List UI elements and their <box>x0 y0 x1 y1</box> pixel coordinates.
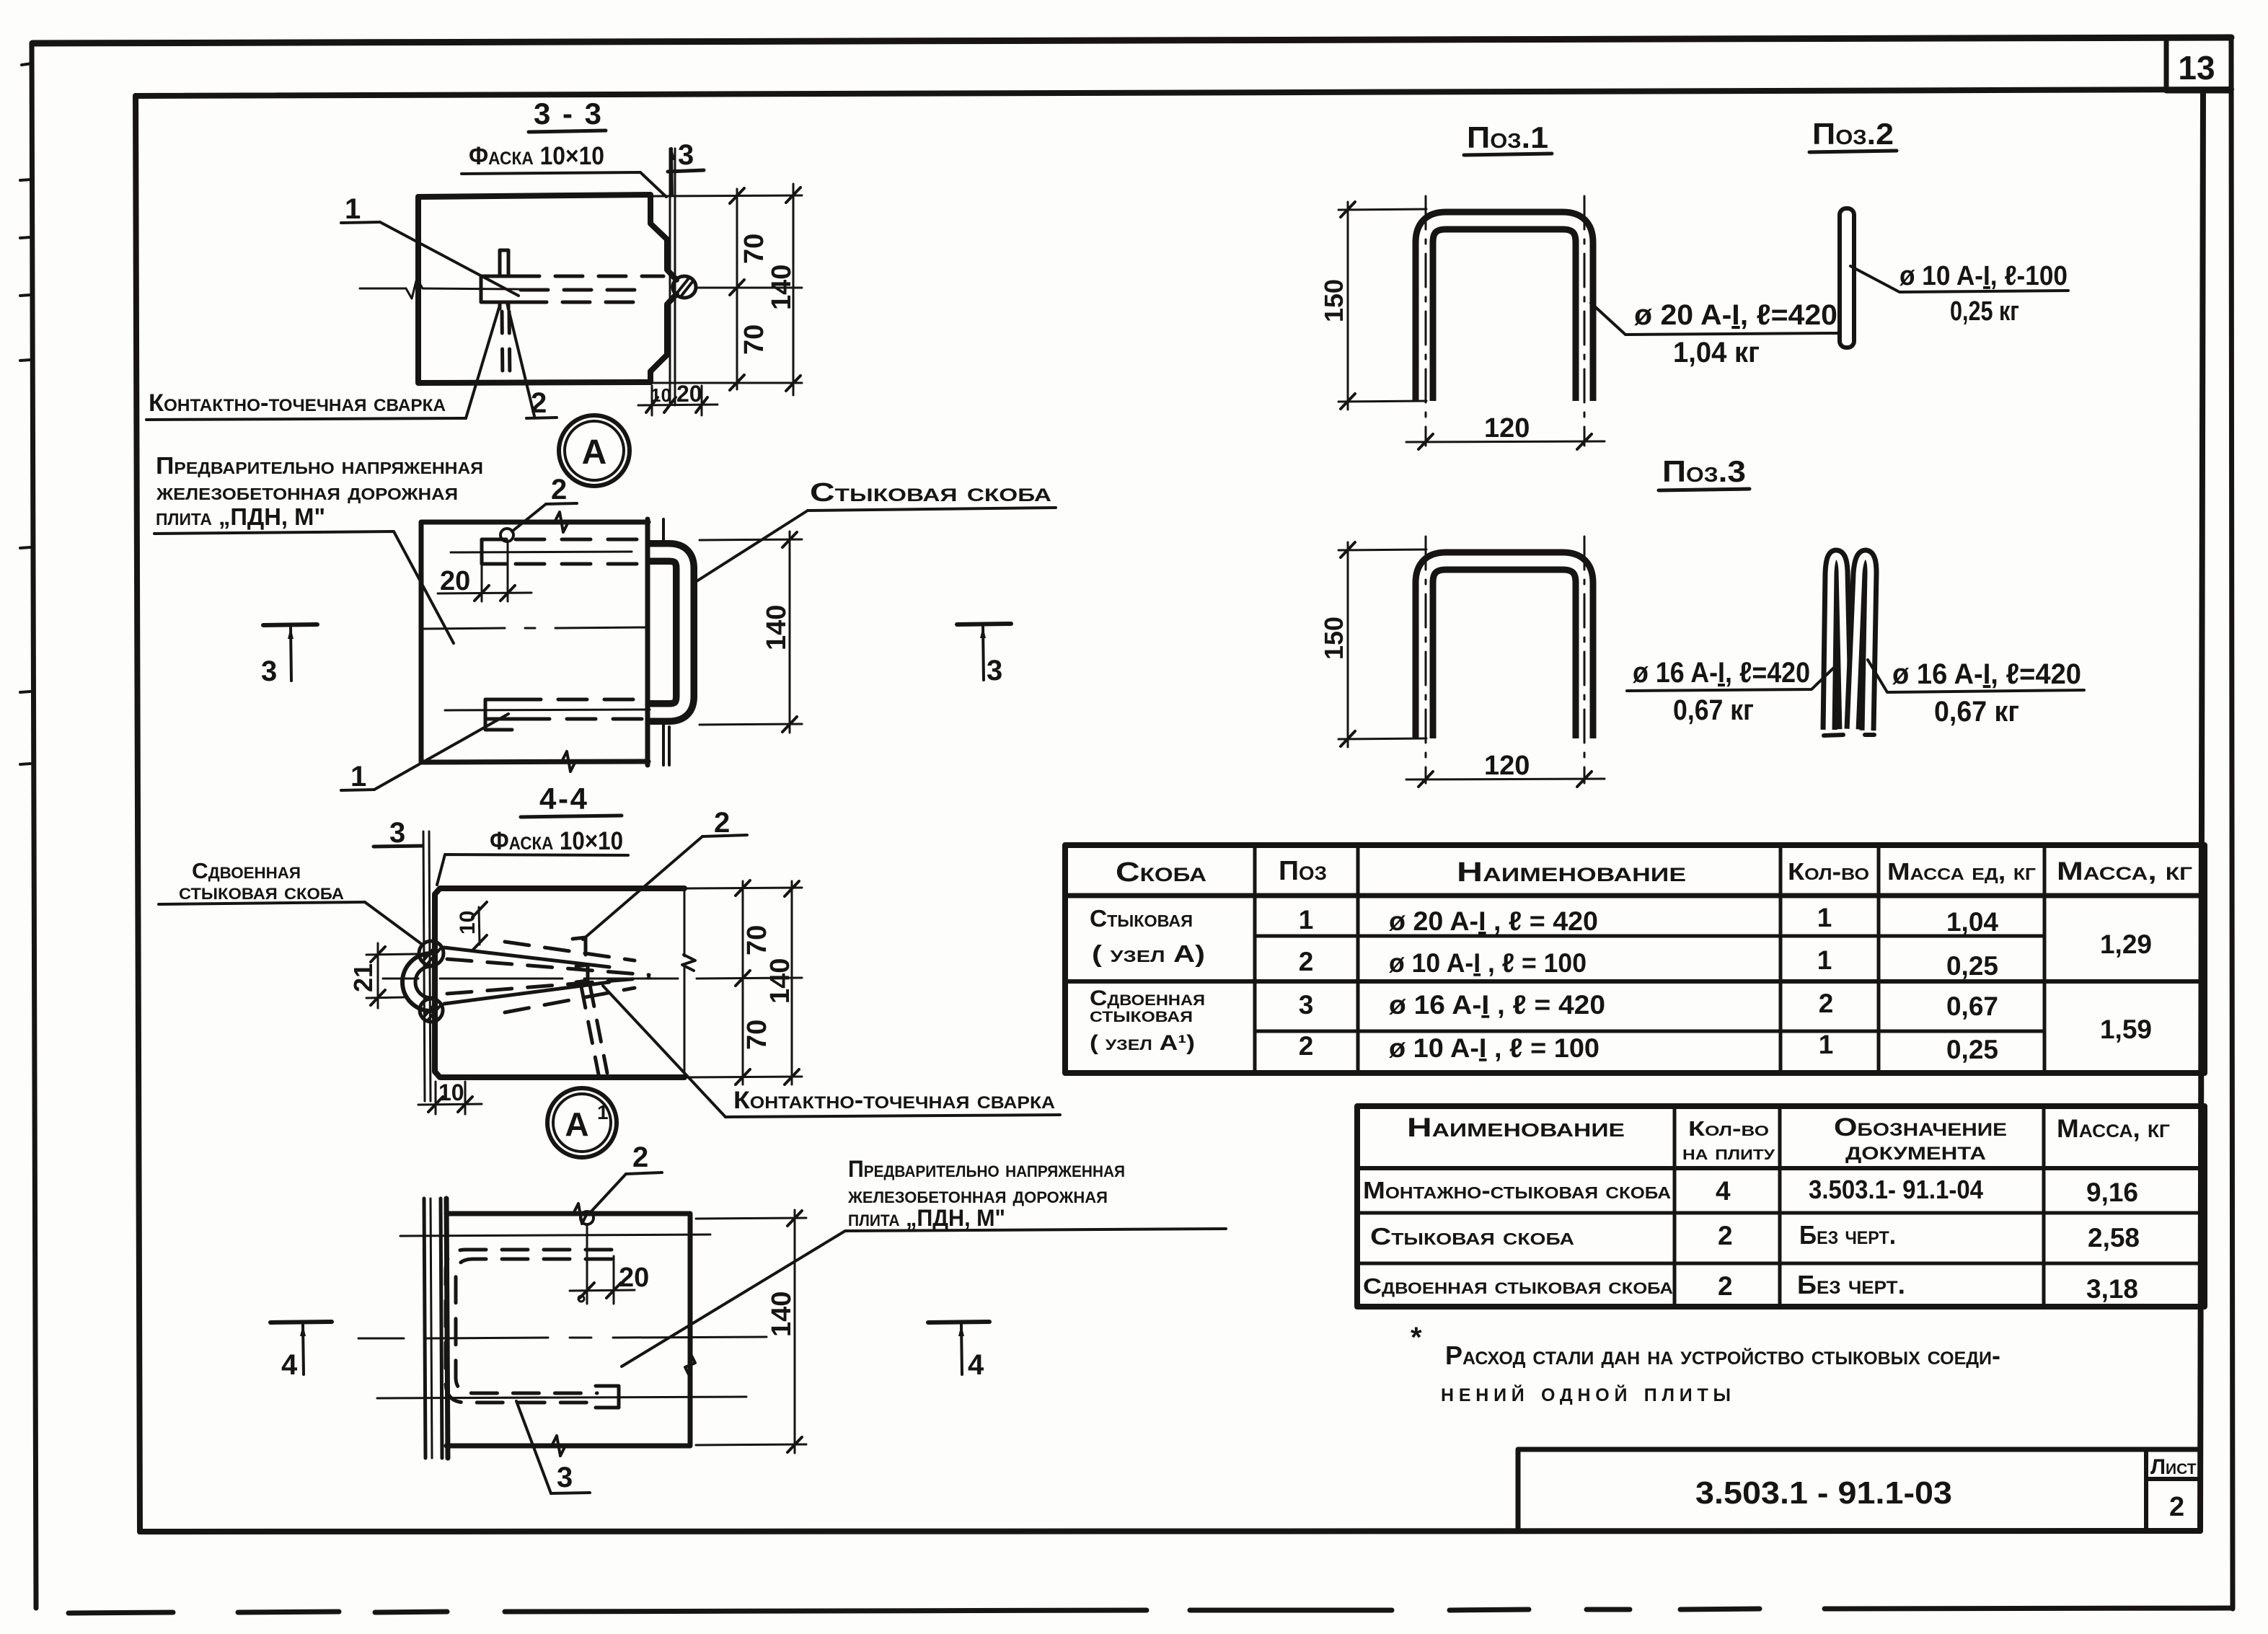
converging bar edges (solid) <box>444 948 609 967</box>
svg-text:1,29: 1,29 <box>2100 929 2152 959</box>
dimension 70/70 line <box>736 189 738 389</box>
svg-text:Стыковая: Стыковая <box>1090 905 1193 932</box>
top leg anchor box <box>482 539 506 564</box>
plate body (plan A1) <box>446 1214 690 1446</box>
table 1 designation cells <box>1389 906 1605 1063</box>
bar 2 cross sections <box>573 937 586 955</box>
node circle A1 <box>547 1088 617 1157</box>
svg-text:10: 10 <box>438 1079 464 1105</box>
hairpin end ticks <box>1824 735 1843 736</box>
break mark top edge <box>573 1204 587 1224</box>
svg-text:1: 1 <box>350 761 366 792</box>
table 1 column lines <box>1255 845 2044 1073</box>
outer page border left <box>32 43 36 1608</box>
svg-text:70: 70 <box>739 234 769 264</box>
svg-text:Скоба: Скоба <box>1116 857 1206 888</box>
dim 140 line <box>789 531 791 733</box>
svg-text:( узел А¹): ( узел А¹) <box>1090 1031 1195 1055</box>
svg-text:Контактно-точечная сварка: Контактно-точечная сварка <box>149 389 446 417</box>
svg-text:Предварительно напряженная: Предварительно напряженная <box>156 452 483 479</box>
section marker 4 right <box>928 1322 989 1322</box>
prestress strand line bottom <box>377 1397 746 1398</box>
break mark bottom edge <box>552 1436 565 1456</box>
svg-text:3: 3 <box>261 655 277 687</box>
svg-text:120: 120 <box>1484 413 1530 443</box>
joint gap lines <box>669 149 671 405</box>
svg-text:9,16: 9,16 <box>2086 1178 2138 1207</box>
bar poz.1 anchor end (solid) <box>481 276 528 302</box>
title block frame <box>1518 1449 2200 1531</box>
svg-text:плита „ПДН, М": плита „ПДН, М" <box>156 503 325 530</box>
svg-text:140: 140 <box>762 605 792 650</box>
svg-text:стыковая: стыковая <box>1090 1003 1193 1027</box>
svg-text:ø 10 A-I, ℓ-100: ø 10 A-I, ℓ-100 <box>1899 261 2068 291</box>
svg-text:3.503.1 - 91.1-03: 3.503.1 - 91.1-03 <box>1695 1475 1952 1511</box>
svg-text:ø 20 A-I , ℓ = 420: ø 20 A-I , ℓ = 420 <box>1389 906 1598 936</box>
dim 150 extension lines <box>1338 209 1426 210</box>
weld point circle 2 <box>500 529 513 542</box>
table 1 outer frame <box>1065 845 2205 1073</box>
dim 20 <box>586 1224 588 1304</box>
svg-text:Без черт.: Без черт. <box>1797 1270 1905 1299</box>
svg-text:А: А <box>565 1105 588 1143</box>
svg-text:ø 10 A-I , ℓ = 100: ø 10 A-I , ℓ = 100 <box>1389 948 1587 978</box>
plate end face redraw over staple gap <box>645 534 650 728</box>
inner drawing frame right <box>2200 90 2203 1531</box>
svg-text:Фаска 10×10: Фаска 10×10 <box>469 142 604 170</box>
callout Ø20 A-I l=420 / 1,04 кг <box>1591 303 1839 335</box>
table 2 row 3 <box>1363 1270 2138 1304</box>
dim 140 line <box>794 1210 796 1453</box>
svg-text:ø 16 A-I, ℓ=420: ø 16 A-I, ℓ=420 <box>1633 657 1810 689</box>
svg-text:Расход стали дан на устройство: Расход стали дан на устройство стыковых … <box>1445 1341 2000 1370</box>
svg-text:0,67 кг: 0,67 кг <box>1673 694 1754 726</box>
svg-text:2,58: 2,58 <box>2088 1223 2140 1253</box>
svg-text:20: 20 <box>619 1263 649 1293</box>
svg-text:20: 20 <box>440 566 470 596</box>
dim 150 line <box>1347 202 1349 410</box>
centerline <box>383 978 678 980</box>
svg-text:1: 1 <box>345 193 361 225</box>
table 2 row 1 <box>1363 1175 2138 1207</box>
svg-text:3,18: 3,18 <box>2086 1274 2138 1304</box>
cross bar poz.2 (vertical) <box>500 250 508 309</box>
svg-text:70: 70 <box>742 925 772 955</box>
svg-text:4: 4 <box>968 1349 984 1381</box>
svg-text:А: А <box>582 433 607 472</box>
svg-text:Поз: Поз <box>1279 856 1327 886</box>
right dimension extension lines <box>653 195 802 196</box>
cross bar dashed continuation <box>502 312 510 381</box>
svg-text:Масса ед, кг: Масса ед, кг <box>1887 858 2036 885</box>
svg-text:3.503.1- 91.1-04: 3.503.1- 91.1-04 <box>1809 1175 1983 1204</box>
bottom leg anchor box <box>485 699 521 730</box>
svg-text:на плиту: на плиту <box>1682 1141 1775 1165</box>
svg-text:Предварительно напряженная: Предварительно напряженная <box>848 1156 1125 1182</box>
leg centerlines (dash-dot) <box>1425 536 1427 783</box>
dimension 140 line <box>793 184 795 395</box>
dim 70/70 <box>742 881 744 1085</box>
outer page border bottom (broken scan line) <box>69 1608 2231 1613</box>
svg-text:железобетонная дорожная: железобетонная дорожная <box>847 1182 1108 1208</box>
svg-text:нений одной плиты: нений одной плиты <box>1441 1379 1731 1407</box>
label Сдвоенная стыковая скоба <box>179 858 344 904</box>
table 2 outer frame <box>1357 1106 2205 1307</box>
svg-text:70: 70 <box>742 1020 772 1050</box>
svg-text:Лист: Лист <box>2150 1455 2197 1479</box>
svg-text:1,59: 1,59 <box>2100 1015 2152 1044</box>
break mark on right edge <box>685 1353 695 1377</box>
cut plane double line <box>423 831 425 1101</box>
svg-text:150: 150 <box>1319 617 1349 660</box>
svg-text:ø 10 A-I , ℓ = 100: ø 10 A-I , ℓ = 100 <box>1389 1033 1599 1063</box>
svg-text:Наименование: Наименование <box>1457 857 1686 888</box>
svg-text:( узел А): ( узел А) <box>1092 940 1205 967</box>
dim 140 extension lines <box>696 1218 806 1219</box>
svg-text:3: 3 <box>557 1462 573 1493</box>
break mark top edge <box>555 512 568 532</box>
svg-text:плита „ПДН, М": плита „ПДН, М" <box>848 1205 1005 1231</box>
weld point circle 2 <box>581 1211 594 1224</box>
top leg hidden lines (dashed) <box>516 539 646 564</box>
svg-text:Наименование: Наименование <box>1407 1113 1625 1142</box>
bar poz.1 leg hidden (dashed) <box>512 276 663 302</box>
bent bar hairpin right <box>1853 556 1871 730</box>
table 2 column lines <box>1674 1106 2044 1307</box>
svg-text:2: 2 <box>1718 1271 1733 1301</box>
svg-text:2: 2 <box>1718 1221 1733 1250</box>
converging bar hidden lines (dashed) <box>447 942 649 1012</box>
svg-text:стыковая скоба: стыковая скоба <box>179 879 344 904</box>
svg-text:1: 1 <box>1299 905 1314 935</box>
svg-text:2: 2 <box>1299 1031 1314 1061</box>
svg-text:150: 150 <box>1319 279 1349 322</box>
svg-text:ø 16 A-I, ℓ=420: ø 16 A-I, ℓ=420 <box>1892 658 2081 690</box>
inner drawing frame bottom <box>140 1531 2200 1532</box>
bottom leg hidden lines (dashed) <box>512 699 646 719</box>
svg-text:3: 3 <box>1299 990 1314 1020</box>
svg-text:1: 1 <box>1817 945 1832 975</box>
plate right break line <box>684 888 686 1077</box>
note plate PDN,M (3 lines, right) <box>847 1156 1125 1231</box>
chamfer leader <box>462 172 666 197</box>
table 1 column 1 text <box>1090 905 1205 1055</box>
staple bend loop (double arc) <box>402 953 431 1011</box>
svg-text:0,25 кг: 0,25 кг <box>1950 296 2019 327</box>
table 1 header text <box>1116 856 2192 888</box>
dim 150 extension lines <box>1338 549 1426 550</box>
svg-text:Сдвоенная стыковая скоба: Сдвоенная стыковая скоба <box>1363 1273 1673 1299</box>
svg-text:140: 140 <box>765 958 795 1004</box>
svg-text:4: 4 <box>281 1349 298 1381</box>
svg-text:21: 21 <box>348 963 378 992</box>
svg-text:140: 140 <box>767 265 797 310</box>
sheet top rule under border <box>136 89 2231 96</box>
svg-text:Кол-во: Кол-во <box>1788 858 1869 885</box>
svg-text:10: 10 <box>456 911 480 935</box>
double staple end circles (hatched) <box>419 941 444 966</box>
butt staple (стыковая скоба) double contour <box>648 552 685 712</box>
svg-text:0,67: 0,67 <box>1946 992 1998 1021</box>
dim 10 (top small) <box>479 907 480 945</box>
dim 21 <box>366 954 417 955</box>
table 2 header text <box>1407 1113 2170 1165</box>
svg-text:*: * <box>1411 1322 1422 1353</box>
svg-text:3: 3 <box>987 655 1002 686</box>
plate centerline <box>358 1337 767 1338</box>
svg-text:140: 140 <box>767 1291 797 1337</box>
svg-text:Масса, кг: Масса, кг <box>2057 1115 2170 1143</box>
svg-text:Контактно-точечная сварка: Контактно-точечная сварка <box>733 1087 1055 1114</box>
note underline and leader to plate <box>154 531 454 643</box>
svg-text:0,25: 0,25 <box>1946 951 1998 981</box>
Лист box <box>2144 1449 2148 1531</box>
table 1 numeric cells <box>1299 903 2152 1064</box>
callout left Ø16 A-I l=420 / 0,67 кг <box>1627 665 1837 691</box>
svg-text:4-4: 4-4 <box>539 782 588 816</box>
staple poz.3 (double contour U) <box>1424 561 1584 738</box>
svg-text:Поз.3: Поз.3 <box>1662 454 1746 488</box>
svg-text:ø 16 A-I , ℓ = 420: ø 16 A-I , ℓ = 420 <box>1389 990 1605 1020</box>
svg-text:0,67 кг: 0,67 кг <box>1934 696 2019 728</box>
svg-text:120: 120 <box>1484 751 1530 781</box>
prestress strand line top <box>400 1235 710 1236</box>
centerline with break <box>360 288 519 289</box>
svg-text:10: 10 <box>650 384 671 406</box>
dim 120 line <box>1406 779 1605 780</box>
staple anchor end box <box>596 1386 619 1408</box>
svg-text:железобетонная дорожная: железобетонная дорожная <box>156 478 458 505</box>
top leg mid line <box>451 552 632 552</box>
svg-text:Монтажно-стыковая скоба: Монтажно-стыковая скоба <box>1363 1177 1671 1204</box>
bottom leg mid line <box>445 710 650 710</box>
node circle A <box>559 415 630 486</box>
callout right Ø16 A-I l=420 / 0,67 кг <box>1868 660 2084 692</box>
svg-text:Кол-во: Кол-во <box>1688 1118 1769 1141</box>
plate centerline <box>423 627 647 629</box>
right dim extension lines <box>687 888 802 888</box>
dim 120 line <box>1406 441 1605 442</box>
dashed drop lines <box>581 985 607 1074</box>
svg-text:1: 1 <box>597 1101 609 1123</box>
outer page border right <box>2231 37 2233 1609</box>
leg centerlines (dash-dot) <box>1425 196 1427 446</box>
svg-text:1,04: 1,04 <box>1946 907 1998 937</box>
binder tick marks at left margin <box>20 63 32 764</box>
svg-text:Поз.2: Поз.2 <box>1812 117 1894 151</box>
page number box <box>2166 38 2231 91</box>
plate body (plan) <box>421 522 648 762</box>
note plate PDN,M (3 lines) <box>156 452 483 530</box>
break mark bottom edge <box>562 751 575 772</box>
hidden double staple (dashed U, outer) <box>446 1250 612 1403</box>
bottom dim 10 <box>435 1082 437 1114</box>
plate end faces (joint) <box>645 519 650 765</box>
note underline and leader <box>622 1229 1226 1366</box>
svg-text:2: 2 <box>1819 989 1834 1018</box>
svg-text:3: 3 <box>678 139 694 171</box>
plate body section 4-4 <box>435 888 684 1077</box>
svg-text:Поз.1: Поз.1 <box>1467 120 1548 154</box>
table 1 row lines <box>1065 896 2205 1031</box>
svg-text:1: 1 <box>1819 1030 1834 1059</box>
bottom small dims 10 20 <box>651 386 653 415</box>
bent bar hairpin left <box>1829 556 1845 730</box>
svg-text:1: 1 <box>1817 903 1832 932</box>
svg-text:0,25: 0,25 <box>1946 1035 1998 1064</box>
dim 140 <box>791 881 793 1085</box>
svg-text:Фаска 10×10: Фаска 10×10 <box>490 827 623 855</box>
table 2 row lines <box>1357 1168 2205 1263</box>
inner drawing frame left <box>136 96 140 1532</box>
svg-text:ø 20 A-I, ℓ=420: ø 20 A-I, ℓ=420 <box>1634 299 1837 331</box>
plate body section 3-3 <box>418 195 676 280</box>
svg-text:Стыковая скоба: Стыковая скоба <box>810 477 1051 507</box>
svg-text:3-3: 3-3 <box>534 97 601 131</box>
dim 140 extension lines <box>700 539 802 540</box>
dim 150 line <box>1347 542 1349 747</box>
svg-text:2: 2 <box>551 474 567 505</box>
section marker 3 left <box>263 624 317 625</box>
svg-text:4: 4 <box>1716 1176 1731 1206</box>
section marker 3 right <box>957 624 1011 624</box>
section marker 4 left <box>270 1322 332 1322</box>
svg-text:Масса, кг: Масса, кг <box>2057 857 2192 886</box>
svg-text:1,04 кг: 1,04 кг <box>1673 337 1760 368</box>
svg-text:2: 2 <box>714 807 730 839</box>
svg-text:документа: документа <box>1845 1137 1986 1165</box>
svg-text:70: 70 <box>739 324 769 355</box>
svg-text:2: 2 <box>1299 947 1314 976</box>
weld bead (hatched) <box>673 276 696 298</box>
svg-text:Без черт.: Без черт. <box>1799 1220 1896 1250</box>
svg-text:20: 20 <box>676 381 702 407</box>
staple poz.1 (double contour U) <box>1424 221 1584 401</box>
bar poz.2 (rounded slim rect) <box>1840 208 1854 348</box>
callout Ø10 A-I l-100 / 0,25 кг <box>1850 266 2068 292</box>
svg-text:3: 3 <box>389 817 405 849</box>
table 2 row 2 <box>1370 1220 2140 1253</box>
dim 20 <box>481 545 483 601</box>
svg-text:Стыковая скоба: Стыковая скоба <box>1370 1223 1574 1250</box>
plate joint edge lines (left) <box>424 1198 425 1458</box>
svg-text:2: 2 <box>632 1141 648 1173</box>
outer page border top <box>32 37 2231 43</box>
svg-text:13: 13 <box>2178 49 2215 87</box>
svg-text:2: 2 <box>2169 1492 2184 1522</box>
